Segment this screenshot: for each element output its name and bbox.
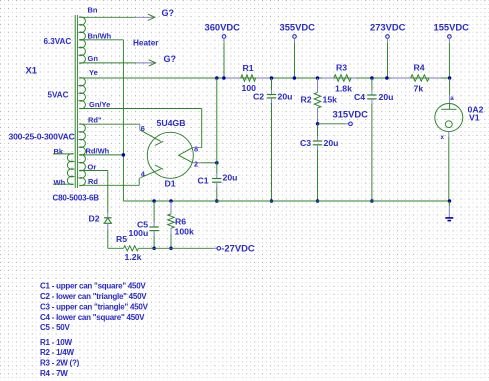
- ground: [445, 217, 453, 219]
- svg-text:C4: C4: [354, 92, 365, 102]
- transformer X1 core: [74, 15, 76, 188]
- lead R4 left: [391, 77, 411, 79]
- wire Bk primary lead: [53, 153, 74, 155]
- wire 155VDC drop: [448, 38, 450, 43]
- lead R6 top: [170, 201, 172, 214]
- svg-text:a: a: [450, 95, 454, 102]
- svg-text:5VAC: 5VAC: [48, 91, 69, 100]
- junction C4 top: [370, 76, 374, 80]
- plate lead pin4 (D1): [139, 177, 141, 178]
- cathode circle (V1): [445, 121, 452, 128]
- svg-text:R1: R1: [243, 63, 254, 73]
- lead R3 left: [322, 77, 334, 79]
- wire 360VDC drop: [223, 38, 225, 43]
- port 315VDC terminal: [349, 122, 353, 126]
- port 355VDC terminal: [293, 35, 297, 39]
- wire Bn to arrow: [79, 16, 135, 18]
- svg-text:Bk: Bk: [54, 147, 64, 156]
- wire heater-CT vertical (Bn/Wh down to B- rail): [122, 40, 124, 201]
- svg-text:155VDC: 155VDC: [434, 22, 470, 33]
- wire C5 lower: [153, 231, 155, 236]
- svg-text:Wh: Wh: [54, 178, 66, 187]
- lead D2 cathode: [107, 223, 109, 229]
- svg-text:Bn: Bn: [88, 6, 98, 15]
- svg-text:1.2k: 1.2k: [125, 252, 142, 262]
- svg-text:V1: V1: [469, 113, 480, 123]
- svg-text:5U4GB: 5U4GB: [157, 118, 186, 128]
- resistor R3: [334, 75, 351, 82]
- wire C2 lower: [271, 98, 273, 103]
- lead R2 top: [317, 78, 319, 92]
- plate bar lower (D1): [155, 165, 163, 169]
- svg-text:G?: G?: [164, 54, 177, 64]
- junction R6 top: [169, 199, 173, 203]
- svg-text:8: 8: [194, 144, 198, 153]
- svg-text:100k: 100k: [175, 226, 194, 236]
- svg-text:G?: G?: [162, 8, 175, 18]
- wire 355VDC drop: [294, 38, 296, 43]
- wire C1 upper: [216, 163, 218, 174]
- cathode chevron (D1): [179, 148, 193, 163]
- svg-text:7k: 7k: [414, 84, 424, 94]
- svg-text:2: 2: [194, 159, 198, 168]
- junction 360VDC at rail: [222, 76, 226, 80]
- wire Rd tap to pin4: [79, 184, 139, 186]
- svg-text:R3 - 2W (?): R3 - 2W (?): [40, 359, 80, 368]
- wire Rd/Wh tap: [79, 154, 123, 156]
- junction C1 bottom: [215, 199, 219, 203]
- svg-text:R4: R4: [414, 63, 425, 73]
- capacitor C5: [149, 226, 158, 228]
- port 273VDC terminal: [386, 35, 390, 39]
- junction C4 bottom: [370, 199, 374, 203]
- junction pin2/C1 node: [215, 161, 219, 165]
- resistor R2: [314, 92, 321, 108]
- wire C4 upper: [371, 78, 373, 91]
- wire Bn/Wh tap: [79, 39, 123, 41]
- junction C3 bottom: [316, 199, 320, 203]
- lead R6 bottom: [170, 228, 172, 234]
- svg-text:R4 - 7W: R4 - 7W: [40, 369, 68, 378]
- svg-text:Bn/Wh: Bn/Wh: [88, 32, 112, 41]
- svg-text:C2: C2: [253, 92, 264, 102]
- svg-text:20u: 20u: [324, 138, 339, 148]
- junction Rd/Wh centre-tap: [122, 153, 126, 157]
- wire V1 anode drop: [449, 78, 451, 95]
- capacitor C3: [313, 140, 322, 142]
- wire V1 cathode drop: [448, 132, 450, 138]
- svg-text:Rd/Wh: Rd/Wh: [86, 147, 110, 156]
- wire Gn to arrow: [79, 62, 136, 64]
- lead R4 right: [429, 77, 441, 79]
- wire Or tap: [79, 170, 108, 172]
- junction C2 top: [270, 76, 274, 80]
- svg-text:C4 - lower can "square" 450V: C4 - lower can "square" 450V: [40, 313, 145, 322]
- lead R2 bottom: [317, 108, 319, 124]
- svg-text:R5: R5: [116, 234, 127, 244]
- wire B- rail: [123, 200, 449, 202]
- svg-text:355VDC: 355VDC: [280, 22, 316, 33]
- svg-text:C5 - 50V: C5 - 50V: [40, 323, 70, 332]
- lead pin 2 (D1): [193, 162, 201, 164]
- wire C2 upper: [271, 78, 273, 90]
- wire ground stub: [448, 201, 450, 206]
- junction C2 bottom: [270, 199, 274, 203]
- diode D2: [104, 217, 112, 219]
- svg-text:D1: D1: [165, 179, 176, 189]
- resistor R5: [124, 246, 139, 251]
- wire Wh primary lead: [53, 183, 74, 185]
- wire C3 lower: [317, 145, 319, 150]
- lead R1 right: [256, 77, 270, 79]
- svg-text:C2 - lower can "triangle" 450V: C2 - lower can "triangle" 450V: [40, 292, 147, 301]
- svg-text:R1 - 10W: R1 - 10W: [40, 338, 72, 347]
- svg-text:1.8k: 1.8k: [335, 84, 352, 94]
- resistor R6: [168, 214, 175, 229]
- capacitor C2: [267, 94, 276, 96]
- tube V1 envelope: [435, 104, 463, 132]
- transformer X1 6.3VAC winding upper (Bn to Bn/Wh): [79, 17, 85, 40]
- svg-text:Ye: Ye: [89, 68, 98, 77]
- junction 355VDC at rail: [293, 76, 297, 80]
- plate bar upper (D1): [155, 141, 163, 145]
- lead D2 anode: [107, 213, 109, 218]
- lead R1 left: [226, 77, 241, 79]
- tube D1 envelope: [147, 132, 193, 178]
- lead R3 right: [351, 77, 356, 79]
- svg-text:Rd": Rd": [88, 116, 102, 125]
- arrow G? (Gn): [149, 60, 156, 66]
- wire Gn/Ye tap: [79, 108, 202, 110]
- svg-text:C80-5003-6B: C80-5003-6B: [53, 194, 100, 203]
- junction 155VDC at rail: [448, 76, 452, 80]
- wire C1 lower: [216, 182, 218, 187]
- svg-text:315VDC: 315VDC: [333, 108, 369, 119]
- svg-text:Gn: Gn: [88, 54, 99, 63]
- svg-text:R2 - 1/4W: R2 - 1/4W: [40, 348, 74, 357]
- transformer X1 6.3VAC winding lower (Bn/Wh to Gn): [79, 39, 85, 63]
- svg-text:360VDC: 360VDC: [205, 22, 241, 33]
- anode bar (V1): [449, 104, 451, 110]
- svg-text:R3: R3: [336, 63, 347, 73]
- wire C3 upper: [317, 124, 319, 136]
- port 155VDC terminal: [448, 35, 452, 39]
- svg-text:Gn/Ye: Gn/Ye: [89, 100, 110, 109]
- capacitor C4: [367, 94, 376, 96]
- junction C5 top: [152, 199, 156, 203]
- resistor R1: [241, 75, 256, 82]
- wire Rd" tap to pin6: [79, 123, 140, 125]
- junction 315VDC node: [316, 122, 320, 126]
- wire pin2 node up to rail: [216, 78, 218, 163]
- wire B+ rail (Ye output bus): [79, 77, 449, 79]
- svg-text:D2: D2: [89, 214, 100, 224]
- transformer X1 5VAC winding (Ye to Gn/Ye): [79, 78, 85, 109]
- transformer X1 HV winding mid (Rd/Wh to Or): [79, 155, 85, 171]
- junction V1 at B- rail: [448, 199, 452, 203]
- svg-text:20u: 20u: [278, 92, 293, 102]
- wire 273VDC drop: [387, 38, 389, 43]
- capacitor C1: [212, 178, 221, 180]
- port 360VDC terminal: [222, 35, 226, 39]
- transformer X1 HV winding upper (Rd" to Rd/Wh): [79, 124, 85, 155]
- svg-text:C1 - upper can "square" 450V: C1 - upper can "square" 450V: [40, 282, 146, 291]
- svg-text:C3: C3: [300, 138, 311, 148]
- wire C5 upper: [153, 201, 155, 222]
- resistor R4: [411, 75, 429, 82]
- port -27VDC terminal: [217, 247, 221, 251]
- svg-text:20u: 20u: [223, 173, 238, 183]
- transformer X1 primary winding (Bk to Wh): [67, 154, 73, 185]
- svg-text:C3 - upper can "triangle" 450V: C3 - upper can "triangle" 450V: [40, 302, 149, 311]
- svg-text:15k: 15k: [323, 94, 338, 104]
- wire -27V rail right: [138, 247, 213, 249]
- junction C5 bottom: [152, 247, 156, 251]
- svg-text:273VDC: 273VDC: [370, 22, 406, 33]
- wire pin8 riser to Gn/Ye: [201, 109, 203, 148]
- wire C4 lower: [371, 99, 373, 104]
- svg-text:Rd: Rd: [88, 177, 98, 186]
- wire D2 to -27 rail: [107, 230, 109, 249]
- lead pin 8 (D1): [193, 147, 202, 149]
- svg-text:20u: 20u: [379, 92, 394, 102]
- svg-text:300-25-0-300VAC: 300-25-0-300VAC: [9, 132, 75, 142]
- svg-text:-27VDC: -27VDC: [221, 242, 255, 253]
- junction R6 bottom: [169, 247, 173, 251]
- wire 315VDC stub: [318, 123, 345, 125]
- junction 273VDC at rail: [385, 76, 389, 80]
- wire -27V rail left: [108, 247, 124, 249]
- svg-text:x: x: [441, 134, 445, 141]
- svg-text:Heater: Heater: [133, 38, 159, 47]
- svg-text:C1: C1: [198, 175, 209, 185]
- svg-text:R2: R2: [301, 94, 312, 104]
- junction R1 left node: [215, 76, 219, 80]
- svg-text:6.3VAC: 6.3VAC: [44, 37, 72, 46]
- svg-text:R6: R6: [175, 216, 186, 226]
- arrow G? (Bn): [148, 14, 155, 20]
- svg-text:100u: 100u: [129, 228, 149, 238]
- transformer X1 HV winding lower (Or to Rd): [79, 170, 85, 185]
- junction R2 top: [316, 76, 320, 80]
- plate lead pin6 (D1): [140, 130, 161, 142]
- svg-text:X1: X1: [26, 65, 37, 76]
